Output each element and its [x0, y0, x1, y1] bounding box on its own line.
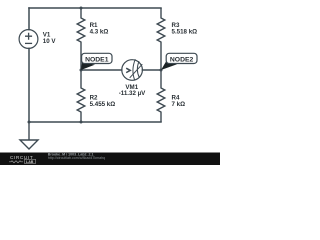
svg-text:http://circuitlab.com/c/8kad47: http://circuitlab.com/c/8kad47kmahq — [48, 156, 105, 160]
wire: middle node to voltmeter left — [81, 69, 122, 71]
node NODE2 junction dot — [160, 69, 163, 72]
label R3 5.518 kOhm — [172, 22, 198, 36]
node A junction dot top — [80, 7, 83, 10]
svg-text:4.3 kΩ: 4.3 kΩ — [90, 29, 109, 36]
resistor R2 — [77, 70, 85, 122]
svg-text:7 kΩ: 7 kΩ — [172, 101, 186, 108]
label R2 5.455 kOhm — [90, 95, 116, 109]
label V1 10 V — [43, 31, 57, 45]
wire: top horizontal — [29, 7, 161, 9]
flag NODE2 — [161, 53, 197, 70]
voltage source V1 — [19, 30, 38, 49]
svg-text:-11.32 µV: -11.32 µV — [119, 90, 146, 97]
resistor R1 — [77, 8, 85, 70]
node junction dot bottom middle — [80, 121, 83, 124]
label R1 4.3 kOhm — [90, 22, 109, 36]
resistor R4 — [157, 70, 165, 122]
voltmeter VM1 — [122, 59, 143, 80]
wire: bottom horizontal — [29, 121, 161, 123]
svg-text:5.455 kΩ: 5.455 kΩ — [90, 101, 116, 108]
wire: left vertical above V1 — [28, 8, 30, 30]
node NODE1 junction dot — [80, 69, 83, 72]
label VM1 -11.32 uV — [119, 84, 146, 97]
label R4 7 kOhm — [172, 95, 186, 109]
logo CircuitLab — [9, 155, 36, 164]
wire: voltmeter right to right node — [142, 69, 161, 71]
flag NODE1 — [81, 53, 112, 70]
footer bar — [0, 153, 220, 166]
svg-text:NODE2: NODE2 — [170, 56, 194, 63]
node junction dot bottom left — [28, 121, 31, 124]
ground — [20, 122, 38, 149]
resistor R3 — [157, 8, 165, 70]
svg-text:10 V: 10 V — [43, 38, 57, 45]
wire: left vertical below V1 — [28, 48, 30, 122]
svg-text:NODE1: NODE1 — [85, 56, 109, 63]
svg-text:5.518 kΩ: 5.518 kΩ — [172, 29, 198, 36]
svg-text:LAB: LAB — [26, 160, 34, 164]
